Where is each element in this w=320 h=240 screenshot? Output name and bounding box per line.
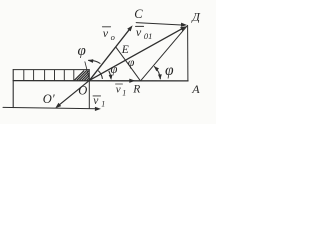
svg-text:v: v [136,25,142,39]
svg-text:φ: φ [165,62,174,79]
vector v_o from O to C [90,29,130,80]
svg-text:01: 01 [144,31,153,41]
svg-text:R: R [132,83,140,95]
angle arc between v_o and v_01 [98,71,102,79]
segment C-D with arrow at D [136,23,181,25]
vertical below O [88,70,90,109]
svg-text:А: А [191,82,200,96]
svg-text:1: 1 [101,100,105,109]
angle arc phi1 at O (v_o to vertical) [88,60,100,63]
main horizontal line O-R-A [13,80,188,82]
svg-text:v: v [103,26,109,40]
left wall vertical [12,70,14,108]
rack cell dividers [24,70,74,81]
short tick up-left from O [85,62,89,79]
vector v_01 from O to D [90,29,182,80]
svg-text:φ: φ [128,55,135,69]
svg-text:C: C [134,7,143,21]
svg-text:1: 1 [122,89,126,98]
svg-text:o: o [111,32,115,42]
svg-text:v: v [93,95,99,107]
floor line with arrow (vector v1 axis) [3,107,97,108]
segment R-D [141,26,188,81]
hatched cell near O [74,70,89,80]
angle arc phi2 at O (v_01 to horizontal) with down arrow [109,71,111,79]
svg-text:v: v [116,84,121,96]
svg-text:φ: φ [111,62,118,76]
rack bar top edge [13,69,89,71]
arrowhead on O-R line (vector v1 upper) [129,79,135,83]
segment E-R [116,47,141,81]
vector from O down-left to O' [58,80,90,106]
svg-text:O: O [78,83,87,97]
svg-text:O′: O′ [43,92,55,106]
right vertical A-D [187,25,189,81]
svg-text:Д: Д [191,9,201,23]
angle arc phi4 at R with arrows [154,66,160,79]
svg-text:φ: φ [78,43,86,59]
